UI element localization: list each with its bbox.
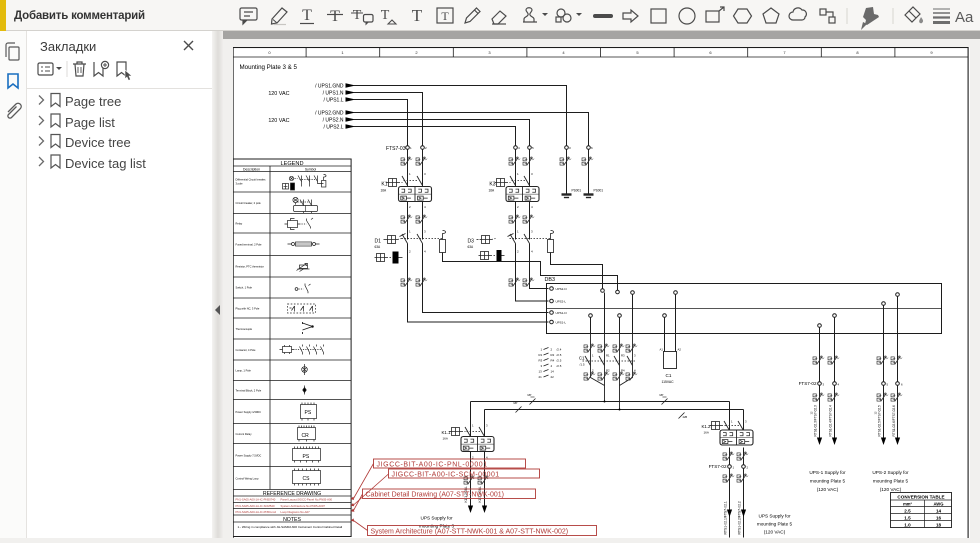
contactor C1 contacts — [579, 334, 637, 410]
annotation box JIGCC-BIT-A00-IC-PNL-00001 — [374, 459, 526, 469]
svg-text:/ UPS2.L: / UPS2.L — [323, 125, 343, 131]
svg-text:System Architecture (A07-STT-N: System Architecture (A07-STT-NWK-001 & A… — [371, 529, 569, 536]
svg-text:6: 6 — [901, 382, 903, 386]
fused terminals below D1 — [401, 278, 412, 286]
svg-text:2: 2 — [409, 250, 411, 254]
svg-text:/1.5: /1.5 — [579, 363, 584, 367]
svg-text:PS: PS — [305, 410, 312, 416]
svg-text:UPS Supply for: UPS Supply for — [758, 514, 790, 519]
svg-text:Cabinet Detail Drawing (A07-ST: Cabinet Detail Drawing (A07-STT-NWK-001) — [366, 492, 505, 499]
delete bookmark icon — [73, 62, 86, 76]
source labels 120 VAC UPS2 — [268, 111, 344, 131]
annotation leader lines — [354, 464, 389, 531]
svg-text:RTS1-02.2/FTS7-02.2: RTS1-02.2/FTS7-02.2 — [738, 501, 742, 534]
svg-text:16A: 16A — [443, 437, 448, 441]
top comment toolbar — [0, 0, 980, 31]
legend symbol: terminal block — [303, 386, 307, 395]
svg-text:1: 1 — [733, 465, 735, 469]
svg-text:PN1-SA05-A00-1A-IC-PN50740: PN1-SA05-A00-1A-IC-PN50740 — [236, 498, 276, 502]
svg-text:3: 3 — [634, 354, 636, 358]
terminal strip DB3 — [545, 277, 942, 334]
svg-text:3: 3 — [486, 424, 488, 428]
svg-text:Relay: Relay — [236, 222, 243, 226]
legend symbol: relay — [285, 218, 314, 230]
svg-text:mounting Plate 5: mounting Plate 5 — [873, 479, 909, 484]
supply label UPS-1 plate 5 — [809, 470, 846, 492]
svg-text:4: 4 — [424, 205, 426, 209]
tree chevrons and bookmark glyphs — [39, 96, 44, 167]
svg-text:3: 3 — [531, 230, 533, 234]
legend symbol: switch — [295, 284, 310, 294]
svg-text:3: 3 — [424, 230, 426, 234]
svg-text:MP: MP — [514, 401, 518, 405]
left rail icons — [0, 31, 27, 538]
wire D3 lamp output to DB3 — [551, 253, 603, 291]
svg-text:mm²: mm² — [903, 502, 912, 507]
svg-text:1: 1 — [517, 230, 519, 234]
svg-text:/2.4: /2.4 — [557, 348, 562, 352]
legend symbol: power supply 1 — [301, 403, 317, 421]
pencil tool — [465, 8, 480, 23]
svg-text:T: T — [302, 7, 312, 24]
svg-text:FTS7-03: FTS7-03 — [386, 146, 406, 152]
svg-text:MP: MP — [660, 393, 664, 397]
svg-text:3: 3 — [541, 364, 543, 368]
svg-text:R1: R1 — [539, 353, 543, 357]
svg-text:5: 5 — [887, 382, 889, 386]
svg-text:LEGEND: LEGEND — [280, 161, 303, 167]
svg-text:Power Supply 1/30DC: Power Supply 1/30DC — [236, 410, 262, 414]
stamp tool — [523, 8, 548, 22]
bookmarks icon (active) — [8, 74, 18, 88]
legend symbol: differential breaker — [283, 175, 327, 191]
svg-text:1.- Wiring in compliance with: 1.- Wiring in compliance with JH-SAM02-6… — [238, 525, 343, 529]
svg-text:A1: A1 — [660, 348, 664, 352]
net arrows — [346, 83, 356, 128]
svg-text:1: 1 — [472, 424, 474, 428]
legend table — [233, 159, 351, 537]
node symbol MP c — [514, 401, 522, 413]
svg-text:UPS Supply for: UPS Supply for — [420, 516, 452, 521]
arrow tool — [623, 10, 638, 22]
svg-text:UPS-2 Supply for: UPS-2 Supply for — [872, 470, 909, 475]
junction C1 wire to lower bus — [619, 409, 621, 411]
svg-text:R2: R2 — [551, 353, 555, 357]
svg-text:2.5: 2.5 — [904, 509, 911, 514]
svg-text:/2.5: /2.5 — [557, 359, 562, 363]
svg-text:Lamp, 1 Pole: Lamp, 1 Pole — [236, 369, 252, 373]
svg-text:120 VAC: 120 VAC — [268, 118, 289, 124]
svg-text:CR: CR — [302, 433, 310, 439]
ground PS001 a — [562, 189, 582, 198]
svg-text:System Architecture No.PN05-A0: System Architecture No.PN05-A007 — [281, 504, 326, 508]
pin tool — [861, 7, 879, 30]
wire UPS1.N — [354, 93, 423, 240]
supply label plate 3 — [419, 516, 455, 529]
svg-text:115VAC: 115VAC — [662, 380, 675, 384]
wire bus MP upper — [471, 401, 730, 403]
legend symbol: fused terminal — [288, 242, 320, 246]
fused terminals below K1 — [401, 215, 412, 223]
svg-text:mounting Plate 5: mounting Plate 5 — [757, 522, 793, 527]
text properties tool — [955, 9, 974, 26]
svg-text:4: 4 — [424, 250, 426, 254]
circuit breaker K1.2 — [701, 402, 753, 538]
node symbol MP b — [660, 393, 668, 405]
eraser tool — [492, 11, 506, 24]
legend symbol: thermocouple — [303, 322, 314, 334]
insert text tool — [381, 8, 396, 24]
svg-text:T: T — [381, 8, 390, 23]
svg-text:16: 16 — [936, 516, 942, 521]
bookmark cursor icon — [117, 62, 132, 81]
svg-text:D1: D1 — [375, 239, 382, 245]
comment bubble tool — [240, 8, 257, 24]
svg-text:RTS1-02.5/FTS7-02.5: RTS1-02.5/FTS7-02.5 — [878, 405, 882, 437]
wire UPS2.GND — [354, 113, 589, 194]
svg-text:UPS2-L: UPS2-L — [556, 299, 567, 303]
highlighter tool — [272, 8, 288, 25]
svg-text:R3: R3 — [621, 354, 625, 358]
svg-text:D3: D3 — [468, 239, 475, 245]
svg-text:Terminal Block, 2 Pole: Terminal Block, 2 Pole — [236, 389, 262, 393]
svg-text:Fused terminal, 2 Pole: Fused terminal, 2 Pole — [236, 243, 263, 247]
svg-text:RTS1-02.6/FTS7-02.6: RTS1-02.6/FTS7-02.6 — [892, 405, 896, 437]
svg-text:6: 6 — [591, 146, 593, 150]
svg-text:5: 5 — [532, 146, 534, 150]
panel close X — [184, 41, 193, 50]
svg-text:4: 4 — [838, 382, 840, 386]
svg-text:/ UPS1.L: / UPS1.L — [323, 98, 343, 104]
DB3 internal terminals — [601, 289, 620, 294]
svg-text:Symbol: Symbol — [305, 168, 317, 172]
svg-text:R1: R1 — [606, 354, 610, 358]
svg-text:3: 3 — [823, 382, 825, 386]
frame ruler row — [233, 48, 968, 58]
supply label UPS-2 plate 5 — [872, 470, 909, 492]
legend symbol: circuit breaker 2 pole — [293, 197, 318, 213]
conversion table — [891, 493, 952, 528]
svg-text:1: 1 — [409, 230, 411, 234]
svg-text:22: 22 — [551, 375, 555, 379]
svg-text:3: 3 — [569, 146, 571, 150]
document area — [223, 31, 980, 538]
svg-text:Loop Diagrams No-A07: Loop Diagrams No-A07 — [281, 510, 311, 514]
svg-text:JIGCC-BIT-A00-IC-PNL-00001: JIGCC-BIT-A00-IC-PNL-00001 — [377, 462, 488, 469]
svg-text:JIGCC-BIT-A00-IC-SCM-00001: JIGCC-BIT-A00-IC-SCM-00001 — [392, 472, 500, 479]
svg-text:Description: Description — [243, 168, 260, 172]
wire D1 lamp output to DB3 — [443, 253, 618, 291]
svg-text:4: 4 — [531, 205, 533, 209]
pentagon tool — [763, 8, 779, 23]
svg-text:(120 VAC): (120 VAC) — [817, 487, 839, 492]
svg-text:16A: 16A — [381, 189, 388, 193]
replace text tool — [351, 8, 373, 26]
panel collapse grip — [212, 31, 223, 538]
svg-text:2: 2 — [517, 250, 519, 254]
svg-text:21: 21 — [539, 375, 543, 379]
line weight tool — [933, 9, 950, 23]
separator — [27, 88, 212, 90]
annotation box JIGCC-BIT-A00-IC-SCM-00001 — [389, 469, 540, 479]
svg-text:2: 2 — [409, 205, 411, 209]
svg-text:4: 4 — [518, 146, 520, 150]
add text tool — [412, 6, 423, 25]
svg-text:9: 9 — [930, 50, 933, 55]
fused terminals below K3 — [509, 215, 520, 223]
svg-text:PS001: PS001 — [594, 189, 604, 193]
legend symbol: current relay — [298, 426, 316, 442]
circuit breaker K1 — [381, 172, 432, 209]
svg-text:CONVERSION TABLE: CONVERSION TABLE — [897, 495, 944, 500]
svg-text:Power Supply 7,5VDC: Power Supply 7,5VDC — [236, 454, 262, 458]
svg-text:14: 14 — [936, 509, 942, 514]
text box tool — [437, 8, 453, 23]
add bookmark icon — [94, 61, 109, 76]
svg-text:UPS1-L: UPS1-L — [556, 320, 567, 324]
connected shapes tool — [820, 9, 835, 23]
svg-text:13: 13 — [539, 370, 543, 374]
node symbol 42B — [679, 413, 688, 420]
svg-text:UPS-1 Supply for: UPS-1 Supply for — [809, 470, 846, 475]
legend symbol: PTC resistor — [297, 264, 310, 272]
rectangle tool — [651, 9, 666, 23]
svg-text:CS: CS — [303, 476, 311, 482]
svg-text:1: 1 — [409, 172, 411, 176]
drawing frame border — [233, 48, 968, 543]
svg-text:MP: MP — [528, 393, 532, 397]
svg-text:T: T — [412, 6, 423, 25]
svg-text:K1.1: K1.1 — [441, 430, 451, 435]
legend symbol: lamp — [302, 364, 308, 375]
circuit breaker K3 — [489, 172, 540, 209]
svg-text:63A: 63A — [375, 245, 382, 249]
svg-text:T: T — [330, 8, 340, 25]
svg-text:14: 14 — [551, 370, 555, 374]
terminal branch FTS7-02.5/.6 — [874, 334, 904, 446]
wire K3 outputs to DB3 — [530, 244, 549, 289]
svg-text:1: 1 — [592, 354, 594, 358]
wire UPS1.GND — [354, 86, 567, 194]
svg-text:/2.5: /2.5 — [557, 353, 562, 357]
svg-text:PS: PS — [303, 454, 310, 460]
svg-text:6: 6 — [709, 50, 712, 55]
wire bus MP lower — [485, 409, 744, 411]
svg-text:Aa: Aa — [955, 9, 974, 26]
svg-text:FTS7-02: FTS7-02 — [799, 381, 817, 386]
svg-text:C1: C1 — [579, 356, 585, 361]
svg-text:3: 3 — [424, 172, 426, 176]
svg-text:/ UPS1.GND: / UPS1.GND — [315, 84, 344, 90]
svg-text:Differential Circuit breaker,: Differential Circuit breaker, — [236, 178, 267, 182]
svg-text:1: 1 — [517, 172, 519, 176]
svg-text:PN1-SA05-A00-1A-IC-PN50-ns2: PN1-SA05-A00-1A-IC-PN50-ns2 — [236, 510, 277, 514]
svg-text:Circuit breaker, 2 pole: Circuit breaker, 2 pole — [236, 201, 262, 205]
ground PS001 b — [584, 189, 604, 198]
svg-text:RTS1-02.4/FTS7-02.4: RTS1-02.4/FTS7-02.4 — [829, 405, 833, 437]
svg-text:REFERENCE DRAWING: REFERENCE DRAWING — [263, 491, 321, 497]
supply label plate 5 — [757, 514, 793, 535]
svg-text:Mounting Plate 3 & 5: Mounting Plate 3 & 5 — [240, 64, 298, 71]
svg-text:18: 18 — [936, 523, 942, 528]
svg-text:PS001: PS001 — [572, 189, 582, 193]
svg-text:4: 4 — [562, 50, 565, 55]
svg-text:3: 3 — [745, 420, 747, 424]
svg-text:/ UPS2.N: / UPS2.N — [323, 118, 344, 124]
svg-text:2: 2 — [415, 50, 418, 55]
wire UPS1.L — [354, 100, 408, 240]
circuit breaker K1.1 — [441, 402, 494, 514]
svg-text:PN1-SA05-A00-1A-IC-SCM540: PN1-SA05-A00-1A-IC-SCM540 — [236, 504, 275, 508]
svg-text:mounting Plate 5: mounting Plate 5 — [810, 479, 846, 484]
svg-text:(120 VAC): (120 VAC) — [764, 530, 786, 535]
svg-text:DB3: DB3 — [545, 277, 556, 283]
cloud tool — [789, 8, 806, 20]
svg-text:1: 1 — [541, 348, 543, 352]
reference drawing rows (red) — [236, 498, 333, 515]
svg-text:8: 8 — [856, 50, 859, 55]
svg-text:Thermocouple: Thermocouple — [236, 327, 253, 331]
svg-text:AWG: AWG — [933, 502, 943, 507]
svg-text:16A: 16A — [704, 431, 709, 435]
svg-text:1: 1 — [731, 420, 733, 424]
legend symbol: power supply 2 — [293, 447, 321, 463]
svg-text:5: 5 — [636, 50, 639, 55]
svg-text:UPS1-N: UPS1-N — [556, 311, 567, 315]
svg-text:2: 2 — [747, 465, 749, 469]
junction C1 wire to MP bus — [604, 401, 606, 403]
svg-text:R4: R4 — [551, 359, 555, 363]
svg-text:NOTES: NOTES — [283, 517, 301, 523]
svg-text:4: 4 — [531, 250, 533, 254]
options menu icon — [38, 63, 62, 75]
svg-text:3: 3 — [531, 172, 533, 176]
differential breaker D1 — [375, 230, 446, 264]
svg-text:R3: R3 — [539, 359, 543, 363]
wire K1 outputs to DB3 — [423, 244, 549, 313]
wire UPS2.L — [354, 127, 516, 240]
svg-text:RTS1-02.1/FTS7-02.1: RTS1-02.1/FTS7-02.1 — [724, 501, 728, 534]
svg-text:3: 3 — [488, 50, 491, 55]
svg-text:2: 2 — [517, 205, 519, 209]
svg-text:/2.5: /2.5 — [557, 364, 562, 368]
svg-text:120 VAC: 120 VAC — [268, 91, 289, 97]
fused terminals row 1 — [401, 157, 412, 165]
svg-text:2: 2 — [425, 146, 427, 150]
fused terminals below D3 — [509, 278, 520, 286]
svg-text:7: 7 — [783, 50, 786, 55]
svg-text:Control Wiring Loop: Control Wiring Loop — [236, 477, 259, 481]
page thumbnails icon — [6, 43, 19, 60]
bookmarks panel — [27, 31, 212, 538]
attachments icon — [8, 103, 21, 118]
svg-text:0: 0 — [268, 50, 271, 55]
legend symbol: plug with NC — [288, 304, 316, 313]
svg-text:Current Relay: Current Relay — [236, 432, 253, 436]
annotation box system architecture — [368, 526, 597, 536]
legend symbol: contactor 4 pole — [280, 345, 324, 355]
svg-text:Plug with NC, 3 Pole: Plug with NC, 3 Pole — [236, 307, 260, 311]
svg-text:4: 4 — [551, 364, 553, 368]
svg-text:/ UPS2.GND: / UPS2.GND — [315, 111, 344, 117]
fill color tool — [905, 7, 923, 23]
svg-text:K1.2: K1.2 — [701, 424, 711, 429]
source labels 120 VAC UPS1 — [268, 84, 344, 104]
svg-text:2: 2 — [551, 348, 553, 352]
annotation box cabinet detail drawing — [363, 489, 536, 499]
svg-text:1: 1 — [410, 146, 412, 150]
underline text tool — [300, 7, 314, 24]
differential breaker D3 — [468, 230, 554, 262]
legend descriptions — [236, 178, 267, 481]
hexagon tool — [734, 9, 752, 23]
svg-text:T: T — [441, 9, 449, 23]
oval tool — [679, 8, 695, 24]
terminal branch FTS7-02.3/.4 — [799, 334, 840, 446]
svg-text:1.0: 1.0 — [904, 523, 911, 528]
svg-text:1.5: 1.5 — [904, 516, 911, 521]
legend symbol: control wiring loop — [293, 469, 321, 486]
svg-text:63A: 63A — [468, 245, 475, 249]
svg-text:3 pole: 3 pole — [236, 182, 244, 186]
contactor C1 coil — [660, 334, 682, 385]
svg-text:FTS7-02: FTS7-02 — [709, 464, 727, 469]
svg-text:Switch, 1 Pole: Switch, 1 Pole — [236, 286, 253, 290]
svg-text:(120 VAC): (120 VAC) — [880, 487, 902, 492]
svg-text:A2: A2 — [678, 348, 682, 352]
line tool — [595, 14, 611, 18]
callout tool — [706, 7, 724, 22]
svg-text:16A: 16A — [489, 189, 496, 193]
svg-text:RTS1-02.3/FTS7-02.3: RTS1-02.3/FTS7-02.3 — [814, 405, 818, 437]
attach tool — [556, 9, 582, 22]
svg-text:42B: 42B — [683, 415, 688, 419]
svg-text:Resistor, PTC thermistor: Resistor, PTC thermistor — [236, 265, 264, 269]
node symbol MP a — [528, 393, 536, 405]
svg-text:C1: C1 — [666, 373, 672, 378]
contact cross-reference list for C1 — [539, 348, 562, 380]
svg-text:Panel Layout/JIGCC-Panel No.PN: Panel Layout/JIGCC-Panel No.PN05-A00 — [281, 498, 333, 502]
strikethrough text tool — [327, 8, 343, 25]
svg-text:T: T — [353, 8, 362, 23]
svg-text:1: 1 — [341, 50, 344, 55]
svg-text:UPS2-N: UPS2-N — [556, 287, 567, 291]
svg-text:Contactor, 4 Pole: Contactor, 4 Pole — [236, 348, 256, 352]
wire UPS2.N — [354, 120, 530, 240]
svg-text:/ UPS1.N: / UPS1.N — [323, 91, 344, 97]
